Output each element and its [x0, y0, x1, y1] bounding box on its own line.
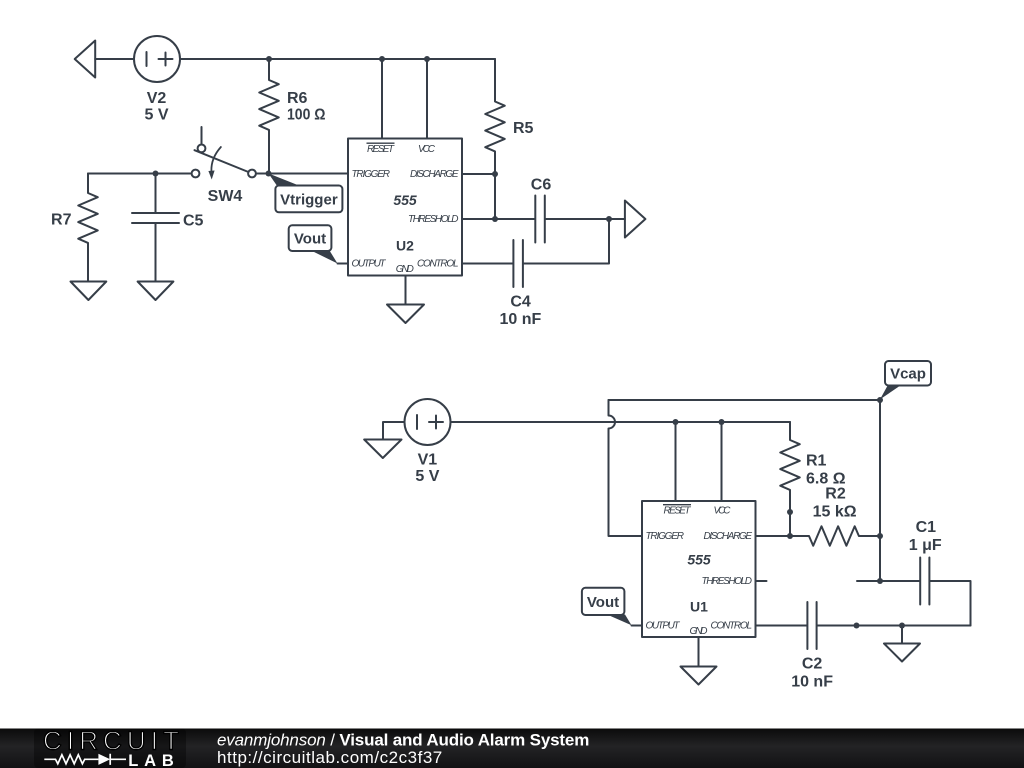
- svg-text:R6: R6: [287, 90, 308, 107]
- svg-text:U2: U2: [396, 238, 414, 254]
- svg-text:U1: U1: [690, 599, 708, 615]
- svg-text:GND: GND: [396, 264, 414, 275]
- svg-text:Vcap: Vcap: [890, 366, 926, 383]
- svg-text:SW4: SW4: [208, 188, 243, 205]
- svg-text:1 μF: 1 μF: [909, 537, 942, 554]
- svg-text:CONTROL: CONTROL: [711, 621, 753, 632]
- svg-text:C1: C1: [916, 519, 937, 536]
- svg-text:DISCHARGE: DISCHARGE: [410, 169, 459, 180]
- svg-text:Vout: Vout: [294, 231, 326, 248]
- svg-text:C5: C5: [183, 213, 204, 230]
- svg-text:RESET: RESET: [664, 506, 692, 517]
- svg-text:LAB: LAB: [128, 752, 174, 768]
- svg-text:R7: R7: [51, 212, 72, 229]
- svg-text:555: 555: [393, 192, 417, 208]
- svg-text:V2: V2: [147, 90, 167, 107]
- svg-text:555: 555: [687, 552, 711, 568]
- svg-text:evanmjohnson / Visual and Audi: evanmjohnson / Visual and Audio Alarm Sy…: [217, 731, 589, 750]
- svg-text:DISCHARGE: DISCHARGE: [704, 531, 753, 542]
- svg-text:100 Ω: 100 Ω: [287, 107, 326, 124]
- svg-text:V1: V1: [418, 452, 438, 469]
- svg-text:R2: R2: [825, 486, 846, 503]
- svg-text:OUTPUT: OUTPUT: [352, 258, 387, 269]
- svg-text:5 V: 5 V: [144, 107, 168, 124]
- svg-text:R1: R1: [806, 452, 827, 469]
- svg-text:TRIGGER: TRIGGER: [352, 169, 391, 180]
- svg-text:R5: R5: [513, 120, 534, 137]
- svg-text:http://circuitlab.com/c2c3f37: http://circuitlab.com/c2c3f37: [217, 748, 443, 767]
- svg-text:VCC: VCC: [418, 144, 436, 155]
- svg-text:RESET: RESET: [367, 144, 395, 155]
- svg-text:CONTROL: CONTROL: [417, 258, 459, 269]
- svg-text:C4: C4: [510, 293, 531, 310]
- svg-text:OUTPUT: OUTPUT: [646, 621, 681, 632]
- svg-text:VCC: VCC: [714, 506, 732, 517]
- svg-text:GND: GND: [690, 626, 708, 637]
- svg-text:C2: C2: [802, 656, 823, 673]
- svg-text:TRIGGER: TRIGGER: [646, 531, 685, 542]
- svg-text:THRESHOLD: THRESHOLD: [702, 576, 753, 587]
- svg-text:THRESHOLD: THRESHOLD: [408, 214, 459, 225]
- svg-text:5 V: 5 V: [415, 468, 439, 485]
- svg-text:Vtrigger: Vtrigger: [280, 191, 338, 208]
- svg-text:10 nF: 10 nF: [500, 311, 542, 328]
- svg-text:15 kΩ: 15 kΩ: [813, 504, 857, 521]
- svg-text:Vout: Vout: [587, 594, 619, 611]
- svg-text:C6: C6: [531, 176, 552, 193]
- svg-text:10 nF: 10 nF: [791, 674, 833, 691]
